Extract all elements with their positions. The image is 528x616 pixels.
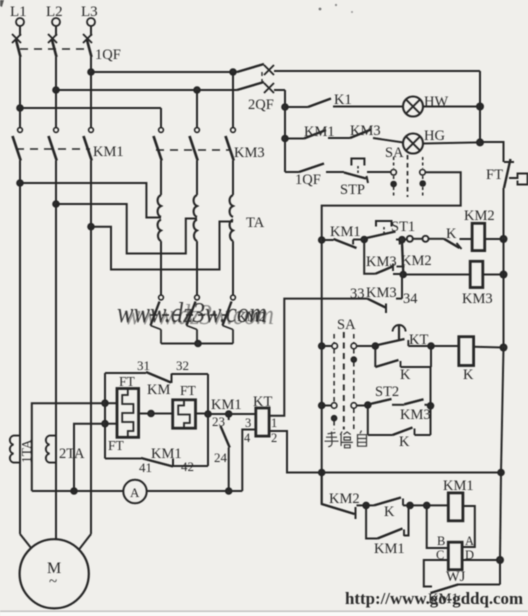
svg-text:HG: HG (424, 128, 445, 144)
contact KM1 self-hold (start row) (322, 237, 367, 248)
thermal contact FT (480, 142, 528, 239)
wire WJ terminal C loop (424, 560, 449, 587)
contactor KM3 linkage (156, 149, 231, 151)
svg-text:~: ~ (49, 574, 57, 590)
wire ammeter line (32, 488, 243, 494)
contactor KM2 star linkage (150, 314, 230, 316)
svg-text:KM1: KM1 (330, 224, 361, 240)
contact KM 31-32 (146, 372, 172, 383)
wire TA bottoms to KM2 star contacts (161, 241, 233, 295)
svg-text:KM3: KM3 (400, 407, 431, 423)
current transformer 1TA (10, 436, 20, 463)
svg-text:3: 3 (245, 416, 251, 430)
svg-text:KM3: KM3 (234, 145, 265, 161)
wire 1TA secondary top (32, 403, 105, 491)
wire heater output to KT (208, 411, 256, 417)
wire KM3 coil feed (403, 272, 506, 278)
wire to WJ terminal B (427, 505, 449, 548)
wire right rail lower (501, 348, 504, 473)
wire L2 feed to 2QF (53, 87, 237, 93)
svg-text:24: 24 (214, 450, 228, 465)
selector SA lower section row 1 (322, 343, 378, 362)
svg-text:K: K (400, 367, 411, 383)
svg-text:A: A (130, 485, 140, 500)
contact KM1 (HG row) (285, 130, 350, 139)
wire L1 feed to KM3 (17, 105, 161, 111)
contact KM3 (ST2 row) (404, 367, 433, 435)
contact KT delayed (375, 325, 434, 349)
breaker 1QF linkage (20, 48, 88, 50)
svg-text:K: K (399, 434, 410, 450)
svg-text:KM3: KM3 (366, 285, 397, 301)
contactor KM1 pole 2 (49, 90, 59, 204)
breaker 2QF linkage (261, 72, 263, 86)
svg-text:42: 42 (181, 459, 194, 474)
junction dots on control rail (319, 237, 325, 408)
autotransformer TA winding 1 (158, 195, 161, 241)
svg-text:KM: KM (147, 382, 170, 398)
ammeter A (123, 480, 146, 503)
wire motor leads (20, 183, 91, 550)
wire star point bar (161, 341, 233, 347)
svg-text:1TA: 1TA (19, 439, 34, 463)
contactor KM2 star pole 1 (151, 295, 164, 343)
svg-text:KM1: KM1 (304, 124, 335, 140)
contact KM3 33-34 (367, 275, 402, 314)
breaker 2QF pole 2 (237, 82, 285, 93)
svg-text:FT: FT (119, 374, 136, 389)
contact KM2 NC (KM1 coil row) (322, 473, 369, 520)
svg-text:KM2: KM2 (464, 208, 495, 224)
contactor KM3 pole 2 (190, 90, 200, 195)
wire KM1 coil to WJ terminal A (462, 506, 475, 547)
svg-text:SA: SA (337, 317, 356, 333)
svg-text:32: 32 (176, 358, 189, 373)
svg-text:L3: L3 (81, 4, 98, 20)
svg-text:K: K (384, 504, 395, 520)
wire KM1 coil feed (410, 503, 448, 509)
contactor KM2 star pole 3 (223, 295, 236, 343)
svg-text:B: B (437, 534, 445, 548)
contactor KM3 pole 3 (226, 72, 236, 195)
svg-text:23: 23 (212, 414, 225, 429)
contact KM2 NC (bypass) (397, 243, 407, 278)
wire top right rail (479, 71, 481, 142)
svg-text:http://www.go-gddq.com: http://www.go-gddq.com (345, 589, 523, 608)
wire to KT terminal 4 (242, 430, 256, 492)
pushbutton ST2 (368, 399, 404, 405)
breaker 1QF pole 3 (83, 26, 92, 72)
label 手停自 selector positions (drawn strokes) (325, 431, 367, 448)
svg-text:KM3: KM3 (462, 291, 493, 307)
svg-text:C: C (436, 548, 444, 562)
svg-text:STP: STP (340, 182, 365, 198)
coil KM2 (472, 223, 485, 250)
heater FT element 1 (117, 389, 139, 438)
breaker 1QF pole 2 (48, 26, 57, 90)
coil K (459, 337, 474, 366)
contact KM3 (HG row) (350, 130, 403, 143)
contact K (KT bypass) (375, 346, 431, 367)
svg-text:D: D (465, 548, 474, 562)
specks top (319, 8, 322, 11)
svg-text:K1: K1 (334, 92, 352, 108)
svg-text:L2: L2 (46, 4, 63, 20)
contactor KM1 pole 3 (84, 72, 94, 227)
svg-text:FT: FT (486, 167, 503, 183)
lamp HW (403, 97, 423, 117)
svg-text:www.dz3w.com: www.dz3w.com (124, 300, 274, 331)
svg-text:1QF: 1QF (295, 172, 321, 188)
svg-text:KM1: KM1 (93, 144, 124, 160)
corner speck (0, 0, 4, 7)
svg-text:KM1: KM1 (443, 478, 474, 494)
svg-text:KM1: KM1 (374, 541, 405, 557)
svg-text:FT: FT (108, 438, 125, 453)
svg-text:33: 33 (350, 286, 365, 302)
relay KT coil (256, 408, 269, 436)
svg-text:KM3: KM3 (350, 123, 381, 139)
contact K (KM1 coil row) (366, 498, 413, 509)
wire L3 feed to 2QF (88, 69, 237, 75)
coil KM3 (470, 261, 483, 287)
breaker 2QF pole 1 (237, 64, 480, 75)
wire HW to right rail (423, 104, 483, 110)
selector SA upper section (391, 155, 426, 197)
node L1 terminal (16, 18, 24, 26)
contact 1QF auxiliary (285, 164, 344, 173)
svg-text:KM2: KM2 (329, 491, 360, 507)
svg-text:SA: SA (385, 145, 404, 161)
svg-text:K: K (463, 367, 474, 383)
wire WJ terminal D to rail (462, 557, 503, 563)
svg-text:HW: HW (424, 94, 448, 110)
wire L2 tap to TA2 (53, 201, 197, 253)
wire L1 tap to TA1 (17, 180, 161, 217)
svg-text:KT: KT (253, 394, 272, 410)
svg-text:2QF: 2QF (248, 97, 274, 113)
svg-text:WJ: WJ (446, 569, 466, 585)
contact KM1 self-hold (bypass) (366, 505, 408, 538)
lamp HG (403, 134, 423, 154)
contactor KM3 pole 1 (154, 108, 164, 195)
selector SA lower section row 2 (322, 402, 371, 420)
pushbutton ST1 (364, 221, 406, 245)
watermark www.dz3w.com gray (117, 298, 274, 331)
svg-text:1QF: 1QF (95, 47, 121, 63)
svg-text:2TA: 2TA (59, 446, 85, 462)
svg-text:KM1: KM1 (151, 446, 182, 462)
svg-text:KT: KT (409, 332, 428, 348)
wire HG to right rail (423, 139, 483, 145)
contact KM3 NC (bypass) (364, 240, 403, 275)
svg-text:41: 41 (139, 460, 152, 475)
svg-text:L1: L1 (10, 4, 27, 20)
thermal relay heater box frame (105, 373, 208, 466)
selector SA lower dashed position lines (334, 332, 354, 430)
breaker 1QF pole 1 (12, 26, 21, 108)
wire KT terminal 1 riser (269, 299, 367, 416)
svg-text:ST2: ST2 (375, 384, 399, 400)
svg-text:4: 4 (244, 431, 251, 445)
wire control rail from 2QF (282, 90, 288, 172)
wire L3 tap to TA3 (88, 222, 233, 270)
wire right rail mid (503, 239, 505, 348)
component WJ (448, 542, 462, 570)
svg-text:31: 31 (137, 358, 150, 373)
node L3 terminal (87, 18, 95, 26)
contact KM1 bottom (431, 560, 501, 593)
svg-text:2: 2 (271, 431, 277, 445)
contact KM1 41-42 (141, 458, 173, 467)
motor M (20, 539, 89, 608)
svg-text:FT: FT (180, 383, 197, 398)
contact K (ST2 bypass) (368, 405, 431, 435)
pushbutton STP (344, 159, 391, 184)
wire KT terminal 2 to coil row feed (269, 431, 504, 475)
current transformer 2TA (46, 436, 56, 463)
page bottom edge (0, 611, 528, 613)
svg-text:1: 1 (271, 416, 277, 430)
node L2 terminal (52, 18, 60, 26)
wire SA2 loop to lower rail (322, 172, 461, 505)
connector terminals (407, 236, 429, 242)
contact KM1 23-24 (221, 414, 230, 491)
heater box connections (102, 400, 211, 426)
wire KM2 coil to right rail (485, 236, 507, 242)
contactor KM2 star pole 2 (187, 295, 200, 343)
svg-text:A: A (465, 534, 474, 548)
svg-text:KM1: KM1 (211, 397, 242, 413)
svg-text:KM3: KM3 (366, 254, 397, 270)
autotransformer TA winding 3 (230, 195, 233, 241)
wire K coil (431, 345, 507, 351)
coil KM1 (448, 493, 463, 521)
heater FT element 2 (173, 400, 196, 428)
svg-text:34: 34 (403, 291, 418, 307)
svg-text:TA: TA (246, 215, 265, 231)
svg-text:ST1: ST1 (391, 219, 415, 235)
contact K (KM2 coil row) (429, 239, 473, 249)
wire 2TA secondary top (71, 424, 105, 494)
contact K1 (285, 99, 403, 108)
svg-text:KM2: KM2 (401, 253, 432, 269)
autotransformer TA winding 2 (194, 195, 197, 241)
wire right rail bottom (500, 473, 501, 561)
svg-text:K: K (446, 226, 457, 242)
contactor KM1 linkage (16, 148, 90, 150)
contactor KM1 pole 1 (13, 108, 23, 183)
